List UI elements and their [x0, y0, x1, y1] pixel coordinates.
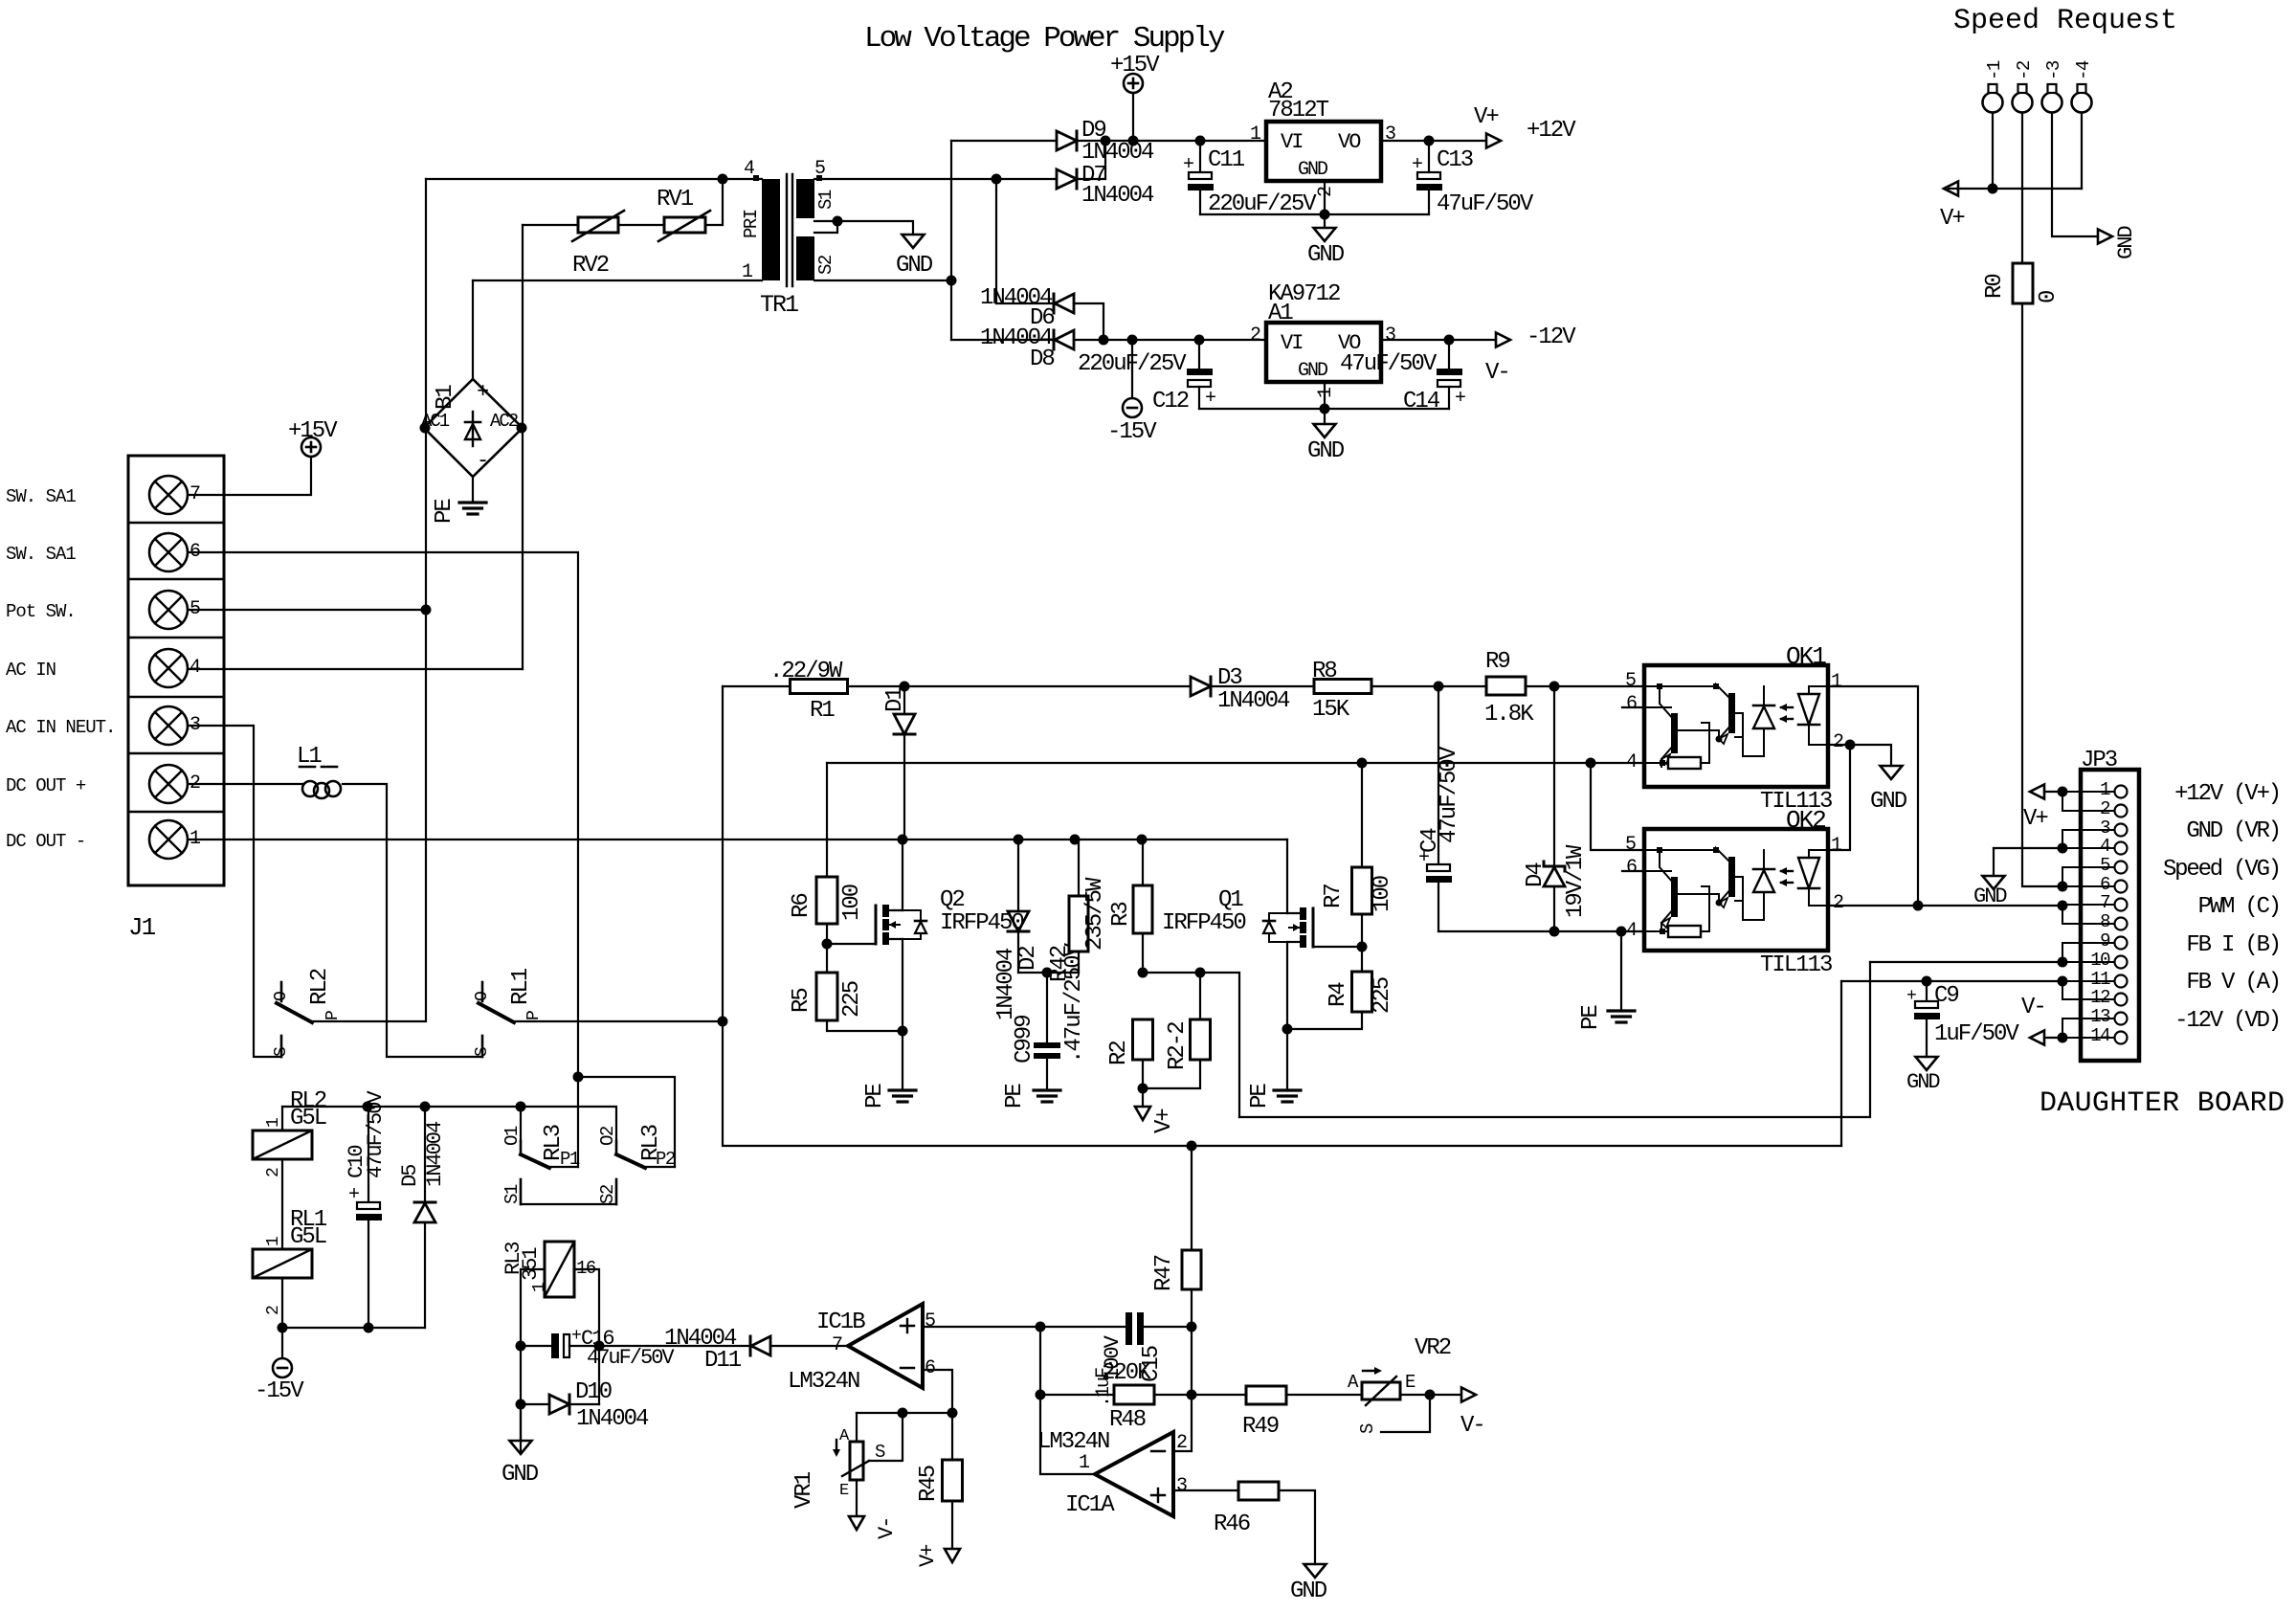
wire R3 bottom row to FB I corner	[1143, 973, 1239, 1117]
wire J1 pin2 DC OUT+ to L1	[189, 783, 302, 785]
resistor R9 1.8K	[1486, 677, 1526, 695]
svg-text:1uF/50V: 1uF/50V	[1934, 1021, 2019, 1047]
svg-text:PE: PE	[1578, 1005, 1604, 1030]
wire OK1 pin1 to PWM node	[1828, 686, 1918, 906]
switch RL3 contact 2	[615, 1141, 618, 1154]
svg-text:S: S	[272, 1046, 291, 1057]
svg-text:LM324N: LM324N	[788, 1369, 859, 1395]
svg-text:B1: B1	[433, 385, 458, 410]
port arrow GND speed request	[2098, 230, 2112, 244]
wire Q1 source to PE	[1286, 942, 1288, 1088]
svg-text:R49: R49	[1242, 1414, 1279, 1440]
svg-text:D1: D1	[882, 687, 908, 712]
svg-text:1: 1	[264, 1236, 283, 1246]
svg-text:+15V: +15V	[1110, 53, 1160, 78]
svg-text:IC1A: IC1A	[1065, 1492, 1115, 1518]
capacitor C10 47uF/50V	[368, 1107, 369, 1202]
svg-text:DC OUT +: DC OUT +	[6, 775, 86, 796]
svg-text:4: 4	[189, 657, 200, 679]
svg-text:GND: GND	[1906, 1070, 1940, 1094]
wire Q1 drain	[1286, 840, 1288, 913]
JP3 pin 6	[2115, 881, 2128, 893]
JP3 pin7-8 tie PWM	[2062, 905, 2063, 924]
connector pin -4	[2072, 93, 2092, 113]
svg-text:100: 100	[1370, 876, 1395, 912]
svg-text:TIL113: TIL113	[1760, 952, 1832, 978]
svg-text:PE: PE	[1247, 1084, 1273, 1108]
svg-text:O1: O1	[502, 1126, 523, 1146]
wire J1 pin4 AC IN	[189, 668, 523, 670]
svg-text:FB V (A): FB V (A)	[2186, 970, 2280, 996]
capacitor C14 47uF/50V	[1448, 340, 1450, 369]
svg-text:+: +	[1205, 388, 1216, 410]
svg-text:+: +	[477, 380, 489, 404]
svg-text:7812T: 7812T	[1268, 98, 1329, 123]
JP3 pin5-6 tie Speed	[2062, 867, 2063, 886]
JP3 pin 1	[2115, 786, 2128, 798]
svg-text:AC2: AC2	[490, 411, 519, 432]
svg-text:3: 3	[1176, 1475, 1187, 1497]
resistor R2-2	[1199, 973, 1201, 1019]
wire R47 node to IC1A pin2	[1173, 1327, 1192, 1451]
wire RL3 pin16	[574, 1269, 599, 1404]
svg-text:R2-2: R2-2	[1165, 1022, 1191, 1070]
ground GND C9	[1916, 1057, 1938, 1070]
svg-text:VI: VI	[1281, 331, 1303, 355]
svg-text:R7: R7	[1321, 884, 1347, 908]
JP3 pin 2	[2115, 805, 2128, 817]
supply +15V top	[1124, 74, 1143, 93]
OK1 pin6 stub	[1622, 706, 1644, 708]
diode D7 1N4004	[1057, 169, 1077, 189]
svg-text:15K: 15K	[1312, 697, 1350, 723]
svg-text:IRFP450: IRFP450	[1162, 910, 1245, 936]
svg-text:2: 2	[2100, 798, 2110, 819]
wire J1 pin5 Pot SW	[189, 609, 426, 611]
capacitor C16 47uF/50V	[521, 1345, 551, 1347]
J1 terminal 5	[149, 591, 188, 629]
ground GND R46	[1304, 1564, 1326, 1578]
supply +15V at J1	[301, 437, 321, 457]
wire -15V node to A1 VI	[1103, 339, 1266, 341]
svg-text:+15V: +15V	[288, 418, 338, 444]
supply arrow V+ R45	[945, 1549, 960, 1562]
svg-text:VR2: VR2	[1415, 1335, 1451, 1361]
svg-text:+12V: +12V	[1527, 118, 1576, 144]
wire TR1 secondary top to D7	[814, 178, 1057, 180]
JP3 pin9-10 tie FB I	[2062, 943, 2063, 962]
wire P2 to SW net	[578, 1077, 675, 1167]
JP3 pin13-14 tie V-	[2062, 1019, 2063, 1038]
wire RL3 pin1	[521, 1269, 545, 1451]
wire OK1 pin4 rail	[827, 762, 1644, 764]
wire OK1 pin2 to GND	[1850, 745, 1891, 766]
svg-text:1: 1	[530, 1282, 549, 1292]
resistor R42 235/5W	[1075, 840, 1079, 896]
svg-text:.1uF: .1uF	[1093, 1368, 1115, 1407]
J1 terminal 4	[149, 649, 188, 687]
inductor L1	[302, 781, 318, 796]
svg-text:-4: -4	[2073, 60, 2094, 80]
op-amp IC1A LM324N	[1095, 1432, 1173, 1516]
connector J1 terminal block	[128, 456, 224, 885]
svg-text:V+: V+	[1474, 104, 1499, 130]
svg-text:6: 6	[1626, 693, 1637, 715]
svg-text:GND: GND	[1973, 884, 2007, 908]
svg-text:S2: S2	[597, 1184, 618, 1204]
IC A1 KA9712	[1266, 323, 1381, 382]
svg-text:225: 225	[1370, 977, 1395, 1014]
svg-text:RV1: RV1	[657, 187, 694, 213]
svg-text:1N4004: 1N4004	[423, 1121, 447, 1187]
svg-text:+: +	[1906, 987, 1917, 1006]
svg-text:O: O	[272, 991, 291, 1001]
svg-text:C9: C9	[1934, 983, 1958, 1009]
ground GND RL3	[520, 1404, 522, 1441]
wire pin4 down	[2081, 113, 2083, 190]
svg-text:1: 1	[264, 1117, 283, 1128]
svg-text:+: +	[1183, 154, 1194, 176]
svg-text:G5L: G5L	[290, 1224, 326, 1250]
svg-text:A: A	[1348, 1372, 1359, 1393]
resistor R2	[1133, 1019, 1153, 1060]
wire +15V node to A2 VI	[1105, 140, 1266, 142]
svg-text:+: +	[1412, 154, 1423, 176]
svg-text:GND: GND	[1298, 159, 1327, 181]
J1 terminal 3	[149, 706, 188, 745]
svg-text:S2: S2	[815, 255, 836, 275]
svg-text:.22/9W: .22/9W	[769, 659, 843, 684]
svg-text:-12V (VD): -12V (VD)	[2174, 1008, 2280, 1034]
svg-text:V-: V-	[875, 1518, 899, 1539]
wire pin2 down to R0	[2021, 113, 2023, 264]
wire Q2 source to PE	[902, 939, 903, 1088]
svg-text:S: S	[875, 1442, 885, 1463]
zener diode D4 19V/1W	[1553, 686, 1555, 866]
wire J1 pin1 DC OUT- rail	[189, 839, 1287, 840]
resistor R8 15K	[1314, 680, 1371, 694]
svg-text:14: 14	[2090, 1025, 2110, 1046]
svg-text:R6: R6	[789, 894, 814, 918]
svg-text:P2: P2	[656, 1149, 676, 1170]
wire A1 VO to -12V	[1381, 339, 1495, 341]
port arrow V+ +12V	[1486, 134, 1501, 148]
ground PE C999	[1034, 1088, 1060, 1091]
capacitor C4 47uF/50V	[1438, 686, 1439, 864]
svg-text:100: 100	[839, 884, 865, 921]
wire VR2 S tie	[1381, 1395, 1430, 1432]
svg-text:235/5W: 235/5W	[1082, 877, 1108, 951]
svg-text:C999: C999	[1012, 1016, 1037, 1063]
svg-text:DC OUT -: DC OUT -	[6, 831, 85, 852]
svg-text:R5: R5	[789, 989, 814, 1013]
resistor R7 100	[1361, 763, 1363, 867]
svg-text:4: 4	[2100, 836, 2110, 857]
J1 terminal 6	[149, 533, 188, 571]
svg-text:JP3: JP3	[2081, 748, 2117, 773]
transistor Q2 IRFP450	[875, 906, 878, 944]
wire A1 GND rail	[1199, 408, 1449, 410]
svg-text:S1: S1	[815, 190, 836, 210]
svg-text:47uF/50V: 47uF/50V	[1437, 191, 1534, 217]
svg-text:5: 5	[814, 158, 825, 180]
svg-text:2: 2	[264, 1305, 283, 1315]
svg-text:2: 2	[1176, 1432, 1187, 1454]
OK1 internals	[1644, 685, 1716, 687]
ground PE Q1	[1274, 1088, 1301, 1091]
svg-text:GND: GND	[1290, 1578, 1327, 1604]
svg-text:R1: R1	[810, 698, 835, 724]
svg-text:+: +	[348, 1184, 360, 1206]
resistor R5 225	[816, 973, 837, 1020]
svg-text:C14: C14	[1403, 389, 1440, 414]
svg-text:1N4004: 1N4004	[576, 1406, 649, 1432]
svg-text:Speed Request: Speed Request	[1953, 5, 2177, 37]
diode D6 1N4004	[996, 179, 1054, 303]
svg-text:AC IN: AC IN	[6, 660, 56, 681]
wire Q1 contact stub	[520, 1107, 522, 1141]
ground GND JP3	[1983, 876, 2005, 889]
svg-text:2: 2	[1833, 892, 1843, 914]
JP3 pin 9	[2115, 937, 2128, 950]
switch RL1	[481, 982, 484, 1001]
svg-text:GND: GND	[502, 1462, 539, 1488]
svg-text:8: 8	[2100, 911, 2110, 932]
svg-text:R47: R47	[1151, 1255, 1177, 1291]
diode D3 1N4004	[904, 685, 1191, 687]
wire IC1B feedback vertical	[1040, 1327, 1095, 1474]
resistor R6 100	[816, 877, 837, 924]
svg-text:G5L: G5L	[290, 1106, 326, 1131]
JP3 pin3-4 tie GND	[2062, 830, 2063, 848]
svg-text:3: 3	[1385, 325, 1395, 347]
svg-text:V+: V+	[916, 1545, 940, 1567]
wire rail to OK2 pin5	[1591, 763, 1644, 850]
svg-text:225: 225	[839, 981, 865, 1018]
svg-text:R48: R48	[1109, 1407, 1146, 1433]
wire R1 left vertical	[722, 686, 724, 1021]
svg-text:GND: GND	[1298, 360, 1327, 382]
wire Q2 drain	[902, 840, 903, 910]
svg-text:IC1B: IC1B	[816, 1310, 865, 1335]
relay coil RL3 351	[545, 1242, 574, 1297]
connector pin -1	[1983, 93, 2003, 113]
svg-text:OK1: OK1	[1786, 642, 1826, 671]
svg-text:V-: V-	[2021, 995, 2045, 1020]
svg-text:A: A	[839, 1427, 850, 1445]
svg-text:13: 13	[2090, 1006, 2110, 1027]
svg-text:R42: R42	[1047, 946, 1073, 982]
wire L1 to RL1 S	[343, 784, 482, 1057]
diode D10 1N4004	[521, 1403, 549, 1405]
switch RL2	[280, 982, 283, 1001]
svg-text:Q1: Q1	[1218, 887, 1243, 913]
svg-text:C12: C12	[1152, 389, 1189, 414]
resistor R0	[2013, 263, 2033, 303]
OK2 internals	[1644, 849, 1716, 851]
diode D5 1N4004	[424, 1107, 426, 1202]
wire FB V from JP3	[1841, 980, 2062, 982]
diode D1	[903, 686, 905, 714]
svg-text:E: E	[1405, 1372, 1415, 1393]
svg-text:4: 4	[1626, 920, 1637, 942]
svg-text:9: 9	[2100, 930, 2110, 952]
wire VR1 E to V-	[856, 1480, 858, 1516]
wire OK1 pin2 node	[1828, 744, 1850, 746]
wire J1 pin3 AC IN NEUT	[189, 726, 281, 1057]
svg-text:O2: O2	[597, 1126, 618, 1146]
svg-text:Q2: Q2	[940, 887, 964, 913]
svg-text:4: 4	[1626, 751, 1637, 773]
op-amp IC1B LM324N	[848, 1304, 923, 1388]
JP3 pin 7	[2115, 899, 2128, 911]
wire OK2 pin4 to PE	[1620, 931, 1622, 1009]
svg-text:R2: R2	[1106, 1041, 1132, 1065]
svg-text:LM324N: LM324N	[1037, 1429, 1109, 1455]
svg-text:Low Voltage Power Supply: Low Voltage Power Supply	[864, 22, 1225, 56]
resistor R1 .22/9W	[723, 685, 790, 687]
svg-text:-3: -3	[2043, 60, 2064, 80]
svg-text:R0: R0	[1982, 275, 2008, 299]
J1 terminal 2	[149, 765, 188, 803]
relay coil RL2 G5L	[281, 1107, 283, 1131]
wire A2 GND rail	[1200, 213, 1429, 215]
wire FB I line	[1239, 962, 1870, 1117]
ground PE bridge	[459, 501, 486, 504]
svg-text:R45: R45	[916, 1466, 942, 1502]
wire OK1 pin2 to OK2 pin1	[1828, 745, 1850, 850]
wire A2 VO to +12V	[1381, 140, 1485, 142]
svg-text:12: 12	[2090, 987, 2110, 1008]
wire TR1 pin4 net	[426, 178, 762, 180]
OK2 pin6 stub	[1622, 870, 1644, 872]
svg-text:SW. SA1: SW. SA1	[6, 544, 76, 565]
JP3 pin 8	[2115, 918, 2128, 930]
resistor R48 220K	[1040, 1394, 1114, 1396]
svg-text:GND: GND	[1307, 438, 1345, 464]
capacitor C999 .47uF/250V	[1046, 973, 1048, 1042]
svg-text:5: 5	[1625, 834, 1636, 856]
connector pin -3	[2042, 93, 2062, 113]
JP3 pin1-2 tie V+	[2062, 792, 2063, 811]
resistor R49	[1192, 1394, 1246, 1396]
svg-text:+12V (V+): +12V (V+)	[2174, 781, 2280, 807]
svg-text:R3: R3	[1108, 903, 1134, 927]
svg-text:R4: R4	[1326, 982, 1351, 1007]
JP3 pin 3	[2115, 824, 2128, 837]
svg-text:P: P	[524, 1010, 544, 1020]
wire IC1B pin5	[923, 1326, 1126, 1328]
svg-text:D5: D5	[398, 1165, 422, 1187]
svg-text:C13: C13	[1437, 147, 1473, 173]
svg-text:P1: P1	[560, 1149, 580, 1170]
svg-text:V-: V-	[1485, 360, 1509, 386]
resistor R4 225	[1352, 972, 1372, 1012]
supply -15V coils	[281, 1328, 283, 1358]
wire AC2 vertical	[522, 225, 524, 669]
diode D8 1N4004	[951, 339, 1054, 341]
svg-text:FB I (B): FB I (B)	[2186, 932, 2280, 958]
svg-text:VI: VI	[1281, 130, 1303, 154]
ground GND transformer	[903, 235, 925, 248]
connector JP3	[2081, 770, 2139, 1061]
svg-text:5: 5	[2100, 855, 2110, 876]
svg-text:6: 6	[925, 1357, 935, 1379]
svg-text:-15V: -15V	[255, 1378, 304, 1404]
wire B1 minus to PE	[472, 477, 474, 501]
svg-text:R8: R8	[1312, 659, 1336, 684]
svg-text:-15V: -15V	[1107, 419, 1157, 445]
JP3 pin 12	[2115, 994, 2128, 1006]
varistor RV1	[664, 217, 705, 233]
svg-text:+: +	[1455, 388, 1466, 410]
svg-text:V+: V+	[2023, 806, 2048, 832]
svg-text:L1: L1	[297, 744, 322, 770]
svg-text:2: 2	[264, 1167, 283, 1177]
svg-text:RL2: RL2	[307, 969, 333, 1005]
svg-text:O: O	[473, 991, 492, 1001]
capacitor C13 47uF/50V	[1428, 141, 1430, 172]
resistor R46	[1238, 1482, 1279, 1500]
svg-text:-12V: -12V	[1527, 325, 1576, 350]
svg-text:VR1: VR1	[791, 1471, 817, 1509]
svg-text:GND (VR): GND (VR)	[2186, 818, 2280, 844]
svg-text:C11: C11	[1208, 147, 1245, 173]
svg-text:DAUGHTER BOARD: DAUGHTER BOARD	[2040, 1087, 2285, 1120]
svg-text:1N4004: 1N4004	[1081, 140, 1154, 166]
svg-text:47uF/50V: 47uF/50V	[587, 1346, 675, 1370]
svg-text:V+: V+	[1940, 206, 1965, 232]
svg-text:4: 4	[744, 158, 754, 180]
svg-text:SW. SA1: SW. SA1	[6, 486, 76, 507]
svg-text:PE: PE	[1002, 1084, 1028, 1108]
supply -15V	[1131, 340, 1133, 398]
wire VR2 E to V-	[1400, 1394, 1460, 1396]
JP3 pin 4	[2115, 842, 2128, 855]
wire rail to R6	[826, 763, 828, 877]
wire R0 to JP3 pin5/6 Speed	[2022, 303, 2062, 886]
wire J1 pin6 SW SA1	[189, 552, 578, 1167]
connector pin -2	[2013, 93, 2033, 113]
svg-text:RV2: RV2	[572, 253, 609, 279]
svg-text:351: 351	[519, 1247, 543, 1281]
wire pin3 down to GND	[2052, 113, 2098, 237]
varistor RV2	[578, 217, 618, 233]
ground GND A1	[1314, 424, 1336, 437]
svg-text:Speed (VG): Speed (VG)	[2163, 857, 2280, 883]
wire D2 bottom row	[1018, 972, 1079, 974]
svg-text:19V/1W: 19V/1W	[1563, 844, 1589, 918]
svg-text:-1: -1	[1984, 60, 2005, 80]
supply arrow V+ down	[1142, 1088, 1144, 1107]
diode D2 1N4004	[1017, 840, 1019, 911]
svg-text:2: 2	[1833, 731, 1843, 753]
svg-text:PRI: PRI	[741, 210, 762, 238]
svg-text:D10: D10	[575, 1379, 612, 1405]
ground GND OK1	[1881, 766, 1903, 779]
capacitor C15	[1126, 1312, 1132, 1345]
wire V+ rail speed request	[1949, 188, 2082, 190]
svg-text:S: S	[1357, 1423, 1378, 1434]
svg-text:RL1: RL1	[508, 968, 534, 1005]
ground PE Q2	[889, 1088, 916, 1091]
wire rectifier mid vertical	[950, 141, 952, 340]
svg-text:VO: VO	[1338, 130, 1361, 154]
wire Q2 gate	[827, 943, 876, 945]
transistor Q1 IRFP450	[1312, 908, 1315, 947]
svg-text:A1: A1	[1268, 301, 1293, 326]
optocoupler OK2 TIL113	[1644, 829, 1828, 951]
